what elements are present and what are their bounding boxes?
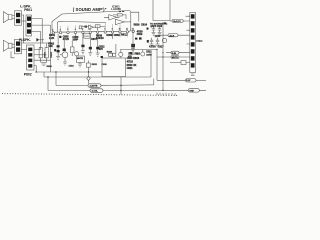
R806 stubs	[71, 41, 73, 56]
pill R1	[186, 79, 197, 82]
IC801 inner block line	[58, 21, 107, 32]
svg-text:A-VOL: A-VOL	[92, 90, 99, 93]
pin label cluster 3	[72, 36, 79, 41]
speaker L	[3, 12, 12, 23]
svg-text:47/25: 47/25	[63, 38, 70, 41]
plug A pin 2	[16, 19, 20, 23]
op-amp A1 triangle inside IC	[109, 15, 117, 20]
wire P801 pin2 out	[31, 24, 50, 26]
IC pin 10	[119, 31, 121, 33]
black blob mark	[59, 36, 61, 38]
cap C7 ground	[96, 49, 100, 56]
Q1 leads	[60, 55, 65, 62]
plus mark C815	[150, 26, 152, 28]
svg-text:C814: C814	[141, 24, 148, 27]
blob left of chain A	[54, 49, 56, 51]
P803 pin 1	[191, 14, 195, 18]
transistor Q3	[75, 52, 79, 56]
pin label cluster 2	[63, 35, 70, 41]
mute block box	[76, 56, 84, 62]
cap C810 body	[131, 44, 135, 48]
svg-text:1: 1	[52, 29, 53, 31]
text block left of box	[99, 45, 106, 51]
black blob 2	[147, 40, 149, 43]
right rail x153.5 down	[156, 50, 158, 81]
svg-text:470: 470	[99, 48, 104, 51]
IC pin 1	[52, 32, 54, 34]
P801 pin 1	[27, 17, 31, 21]
wire below pin4	[75, 33, 77, 40]
long wire W1	[36, 71, 102, 73]
pill C wires	[157, 56, 190, 58]
wire pin10 down	[119, 33, 121, 37]
P803 pin 5	[191, 42, 195, 46]
cap C5 ground	[81, 47, 85, 54]
IC pin 9	[111, 31, 113, 33]
black blob near caps	[147, 28, 149, 30]
svg-text:C836: C836	[102, 64, 108, 66]
cap B blob	[63, 49, 66, 52]
wire P802 pin4 out	[34, 66, 36, 72]
tick row above dotted right	[157, 93, 175, 96]
wire pill R1 to edge	[196, 79, 206, 81]
svg-text:12: 12	[132, 28, 134, 30]
internal row small rect left	[79, 26, 81, 29]
cap C815 ground	[152, 32, 156, 35]
svg-text:10K: 10K	[48, 45, 53, 48]
wire y90.5	[48, 89, 206, 91]
cap C6 below pin6	[89, 33, 91, 47]
wire P802 pin1 out	[34, 48, 41, 50]
small box on wire y62	[181, 61, 186, 65]
pill B	[168, 34, 178, 37]
P803 pin 7	[191, 56, 195, 60]
wire y80 to pill R1	[157, 79, 186, 81]
transistor Q4	[141, 52, 145, 56]
pin label cluster 6	[106, 34, 127, 37]
cap C818	[156, 38, 159, 44]
svg-text:S-IN: S-IN	[172, 53, 177, 55]
cap chain A mid wire	[57, 47, 59, 50]
P803 pin 2	[191, 21, 195, 25]
wire pin2 row	[186, 16, 191, 44]
svg-text:10/50: 10/50	[146, 54, 152, 56]
Q4 stub	[142, 50, 144, 53]
internal row wires	[82, 25, 106, 28]
vertical up from W2 at x151	[150, 52, 152, 77]
wire y49.5 to right rail	[121, 49, 157, 51]
svg-text:P801: P801	[24, 8, 32, 12]
resistor R1 stubs	[40, 44, 42, 63]
ground under Q1	[63, 62, 67, 65]
cap chain A stub	[57, 34, 59, 45]
IC pin 12	[132, 30, 134, 32]
misc bottom labels	[47, 64, 108, 68]
wire P801 pin1 out	[31, 19, 42, 43]
cap C5 below pin5	[82, 33, 84, 44]
cap C816	[158, 26, 161, 32]
P801 connector housing	[26, 15, 31, 36]
diamond arrow right of R-SPK	[36, 38, 39, 42]
transistor Q2	[119, 52, 123, 56]
P802 pin 2	[28, 53, 32, 57]
pill R2	[188, 89, 199, 92]
cap C810 from IC right	[132, 32, 134, 44]
bottom edge extension	[131, 30, 135, 32]
wire plugA pin1 to vertical	[22, 15, 24, 43]
ground chain right of Q3	[78, 62, 82, 67]
pill tag 2	[90, 89, 103, 93]
svg-text:2.2K: 2.2K	[49, 37, 54, 40]
svg-text:A-MUTE: A-MUTE	[90, 85, 98, 88]
svg-text:R818: R818	[133, 57, 140, 60]
small blob pair	[139, 37, 142, 39]
speaker R leads	[12, 44, 15, 47]
small box on x88 chain	[86, 63, 90, 67]
plug B pin 1	[16, 41, 20, 45]
resistor R5 above box	[113, 53, 116, 56]
svg-text:FR801: FR801	[45, 51, 47, 58]
wire P801 pin3 out	[31, 32, 40, 44]
svg-text:11: 11	[126, 28, 128, 30]
wire speakerR down	[11, 51, 15, 58]
wire into A1	[104, 15, 117, 17]
plug A pin 1	[16, 13, 20, 17]
P802 connector housing	[27, 45, 35, 70]
IC pin 4	[74, 31, 76, 33]
svg-text:B+5.1V: B+5.1V	[173, 21, 181, 23]
big feedback loop box	[102, 58, 125, 77]
cap A2 polarized mark	[57, 50, 60, 52]
feedback resistor box inside IC	[117, 14, 122, 16]
svg-text:( SOUND AMP ): ( SOUND AMP )	[73, 7, 105, 12]
diamond stub wire	[39, 39, 44, 41]
wire plugA pin2 to P801 box	[22, 20, 27, 22]
cap A1 polarized mark	[57, 45, 60, 47]
small marks row	[164, 22, 166, 24]
pill C2 wires	[166, 52, 190, 54]
resistor R4 above box	[109, 53, 113, 56]
P801 pin 2	[27, 23, 31, 27]
svg-text:100/16: 100/16	[96, 37, 104, 40]
svg-text:C813: C813	[146, 51, 152, 53]
wire A2 out	[124, 21, 130, 23]
P803 connector housing	[190, 13, 196, 73]
svg-text:LA4285: LA4285	[111, 7, 121, 11]
internal row rect	[95, 25, 100, 28]
blob left of box	[101, 56, 103, 58]
P803 pin 8	[191, 63, 195, 67]
Q2 leads	[120, 49, 122, 58]
wire P802 pin2 out	[34, 54, 47, 56]
P803 pin 3	[191, 28, 195, 32]
plug B housing (R-SPK plug)	[15, 39, 22, 53]
svg-text:C815 C816: C815 C816	[151, 26, 163, 28]
internal row triangle	[89, 25, 94, 29]
svg-text:R830: R830	[47, 66, 53, 68]
text cluster C819	[137, 30, 144, 36]
plug B pin 2	[16, 47, 20, 51]
IC pin 6	[89, 31, 91, 33]
small mark left of arrow	[101, 8, 103, 9]
black blob 3	[135, 38, 137, 40]
vertical x153.8	[153, 79, 155, 85]
svg-text:C819: C819	[137, 33, 143, 36]
svg-text:P802: P802	[24, 72, 32, 76]
second text rows left cluster	[48, 42, 55, 48]
IC pin 11	[126, 31, 128, 33]
transistor Q3	[162, 38, 166, 42]
svg-text:C809: C809	[114, 34, 121, 37]
svg-text:1K: 1K	[133, 64, 136, 67]
IC pin 2	[59, 32, 61, 34]
svg-text:C831: C831	[69, 65, 75, 67]
text block right of box	[127, 57, 140, 70]
vertical x48	[47, 77, 49, 91]
pill C2	[171, 51, 179, 54]
text row under enclosure	[150, 24, 168, 26]
P803 pin 4	[191, 35, 195, 39]
wire plugB pin2	[22, 49, 27, 51]
svg-text:R-SPK.: R-SPK.	[19, 38, 31, 42]
IC pin 5	[82, 31, 84, 33]
svg-text:C817: C817	[158, 47, 164, 49]
chain verticals	[88, 61, 90, 84]
wire P802 pin3 out	[34, 59, 51, 61]
mark under P803	[191, 74, 194, 76]
IC pin 3	[67, 31, 69, 33]
resistor R1 vertical	[39, 48, 42, 58]
speaker R	[3, 40, 12, 51]
cap C810 ground	[131, 47, 135, 51]
op-amp A2 triangle inside IC	[115, 19, 124, 24]
cap C818 ground	[156, 44, 160, 47]
pin label cluster 5	[96, 34, 104, 40]
misc parts text under IC right	[134, 24, 148, 27]
svg-text:AU-R: AU-R	[169, 35, 175, 38]
cap C817 ground	[150, 44, 154, 47]
svg-text:R835: R835	[92, 64, 98, 66]
cluster small text	[128, 51, 152, 58]
small boxed part R805	[84, 34, 90, 38]
op-amp U1 (IC801 outline, chamfered corner)	[52, 11, 131, 33]
boxed part R806	[70, 47, 74, 53]
svg-text:): )	[167, 24, 168, 26]
svg-text:P803: P803	[196, 39, 203, 43]
svg-text:R805: R805	[84, 36, 90, 38]
svg-text:C821: C821	[127, 67, 134, 70]
cap C7 below pin7	[97, 33, 99, 47]
pill B wires	[160, 34, 190, 36]
plug A housing (L-SPK plug)	[15, 11, 22, 25]
P802 pin 3	[28, 59, 32, 63]
long wire W2	[44, 76, 151, 78]
svg-text:FR802: FR802	[51, 51, 53, 58]
internal row blob	[85, 26, 88, 28]
vertical from box bottom to dotted	[120, 77, 122, 95]
wire A1 out	[117, 15, 126, 19]
ground under resistors	[41, 62, 47, 65]
wire drop from top right	[131, 12, 139, 21]
long vertical wire from P801	[50, 25, 52, 72]
resistor R2 stubs	[46, 44, 48, 63]
pill C	[171, 56, 179, 59]
IC pin 7	[97, 31, 99, 33]
wire pin11 down	[126, 33, 128, 37]
vertical x163	[162, 22, 164, 90]
caps cluster right of IC: cap C815	[152, 26, 155, 32]
svg-text:R811: R811	[121, 34, 127, 37]
svg-text:4.7/50: 4.7/50	[149, 46, 156, 49]
pill top right B+	[172, 19, 183, 22]
IC pin 8	[104, 31, 106, 33]
svg-text:10/50: 10/50	[155, 36, 161, 38]
top-right enclosure box	[153, 0, 170, 21]
cap C816 ground	[158, 32, 162, 35]
pin number ticks inside IC	[52, 28, 133, 31]
wire pin9 down	[113, 33, 116, 53]
wire enclosure to pill	[170, 20, 190, 22]
wire y62	[170, 62, 190, 64]
resistor R2 vertical	[45, 48, 48, 58]
wire y85.5	[56, 84, 154, 87]
wire W2 left stub	[43, 72, 45, 77]
diamond on x88 chain	[87, 76, 91, 80]
pill tag 1	[88, 84, 101, 88]
black mark cluster	[130, 52, 133, 54]
svg-text:R809: R809	[106, 34, 113, 37]
svg-text:5.1V: 5.1V	[186, 80, 191, 82]
svg-text:GND: GND	[189, 91, 194, 93]
wire plugB pin1	[22, 42, 51, 44]
P801 pin 3	[27, 29, 31, 33]
P802 pin 4	[28, 64, 32, 68]
internal pin stubs	[61, 23, 120, 31]
transistor Q1	[62, 52, 68, 58]
cap chain B stub	[63, 40, 65, 49]
dotted separation line	[2, 94, 178, 96]
cap C6 ground	[88, 49, 92, 55]
svg-text:MUTE: MUTE	[77, 58, 84, 60]
ground under chain A	[56, 52, 60, 59]
cap C817	[150, 38, 153, 44]
tick marks under IC801 label	[119, 11, 121, 12]
svg-text:MUTE: MUTE	[172, 57, 179, 59]
pin label cluster 4	[91, 38, 98, 41]
speaker L leads	[12, 16, 15, 19]
pin label cluster 1	[49, 34, 56, 40]
P802 pin 1	[28, 48, 32, 52]
junction dots	[36, 42, 164, 91]
arrow marker left of IC801	[105, 8, 106, 10]
P803 pin 6	[191, 49, 195, 53]
svg-text:R816: R816	[134, 24, 141, 27]
svg-text:10: 10	[119, 29, 121, 31]
vertical x56	[55, 72, 57, 86]
